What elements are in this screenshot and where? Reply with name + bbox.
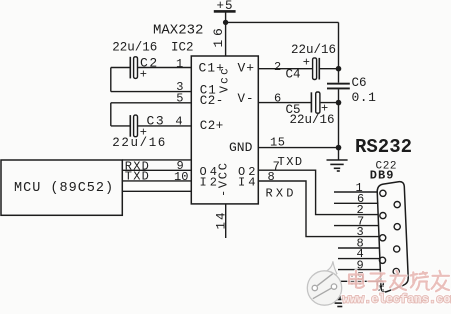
svg-text:14: 14 (215, 210, 229, 229)
svg-text:6: 6 (274, 92, 281, 106)
svg-text:10: 10 (174, 170, 188, 184)
svg-text:16: 16 (211, 24, 226, 47)
svg-text:C4: C4 (286, 68, 301, 82)
svg-text:C2-: C2- (200, 94, 224, 108)
svg-text:DB9: DB9 (370, 169, 395, 183)
svg-text:I4: I4 (238, 176, 258, 190)
svg-text:GND: GND (229, 140, 253, 155)
svg-text:V-: V- (238, 92, 255, 106)
svg-text:5: 5 (176, 91, 183, 105)
svg-text:4: 4 (175, 115, 182, 129)
svg-text:MCU (89C52): MCU (89C52) (14, 181, 114, 196)
svg-text:1: 1 (176, 57, 183, 71)
svg-text:Vcc: Vcc (219, 66, 232, 93)
svg-text:RS232: RS232 (355, 136, 412, 158)
svg-text:+: + (303, 56, 310, 70)
svg-text:22u/16: 22u/16 (290, 113, 335, 127)
svg-text:+: + (140, 67, 147, 81)
svg-text:2: 2 (274, 60, 281, 74)
svg-text:V+: V+ (238, 60, 256, 75)
svg-text:TXD: TXD (278, 155, 304, 169)
svg-text:22u/16: 22u/16 (112, 136, 167, 150)
svg-text:C2+: C2+ (200, 119, 224, 133)
svg-text:22u/16: 22u/16 (112, 40, 157, 54)
svg-text:IC2: IC2 (171, 40, 194, 54)
svg-text:www.elecfans.com: www.elecfans.com (343, 293, 451, 307)
svg-text:TXD: TXD (125, 170, 150, 184)
svg-text:8: 8 (268, 170, 275, 184)
svg-text:C3: C3 (147, 113, 166, 128)
svg-text:RXD: RXD (266, 187, 297, 201)
svg-text:22u/16: 22u/16 (291, 43, 336, 57)
svg-text:MAX232: MAX232 (153, 22, 203, 38)
svg-text:15: 15 (270, 135, 285, 149)
svg-text:-VCC: -VCC (217, 161, 231, 197)
svg-text:0.1: 0.1 (352, 90, 377, 105)
svg-text:C6: C6 (352, 76, 367, 90)
